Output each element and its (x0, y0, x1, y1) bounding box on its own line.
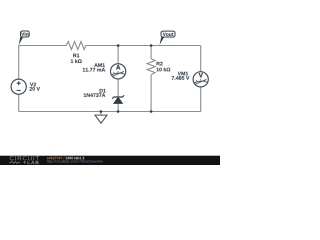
wire ammeter to diode (117, 79, 119, 97)
wire bottom (19, 111, 201, 113)
voltmeter VM1 (172, 72, 209, 87)
footer url text (47, 160, 103, 163)
footer CircuitLab logo (9, 156, 39, 164)
ammeter AM1 (83, 63, 126, 79)
node Vin flag (19, 31, 30, 45)
wire ammeter branch upper (117, 46, 119, 64)
zener diode D1 (84, 89, 124, 104)
voltage source V2 (11, 79, 40, 94)
wire top-left segment (19, 45, 66, 47)
footer bar (0, 156, 220, 165)
junction bottom diode branch (117, 110, 120, 113)
wire left vertical lower (18, 94, 20, 111)
junction top R2 branch (150, 44, 153, 47)
junction bottom R2 branch (150, 110, 153, 113)
wire diode to bottom (117, 104, 119, 112)
wire left vertical upper (18, 45, 20, 79)
node Vout flag (160, 31, 176, 45)
resistor R2 (147, 59, 170, 75)
wire R2 branch lower (150, 75, 152, 112)
wire R2 branch upper (150, 46, 152, 59)
ground (95, 112, 107, 124)
junction top ammeter branch (117, 44, 120, 47)
footer title text (47, 157, 65, 160)
junction bottom ground (100, 110, 103, 113)
wire right vertical upper (200, 46, 202, 72)
wire right vertical lower (200, 87, 202, 112)
resistor R1 (66, 42, 86, 64)
wire top-right segment (86, 45, 201, 47)
